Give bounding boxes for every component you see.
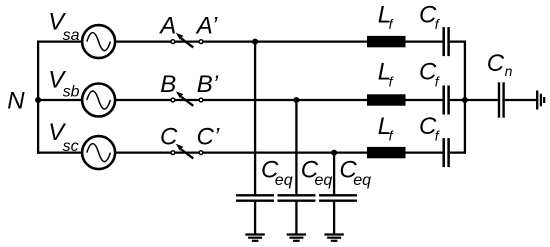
wire Vsb to switch B	[115, 99, 367, 101]
switch A blade with arrow	[176, 33, 194, 48]
junction dot row b tap	[293, 97, 299, 103]
switch B contact circles	[171, 98, 203, 102]
svg-text:A’: A’	[195, 12, 218, 39]
wire right bus to Cn	[465, 99, 498, 101]
source Vsb circle	[82, 84, 115, 117]
ground Ceq3	[324, 235, 343, 241]
right bus wire	[464, 41, 466, 154]
wire Ceq3 to ground	[333, 201, 335, 235]
junction dot row a tap	[252, 39, 258, 45]
wire N bus to Vsb	[37, 99, 82, 101]
switch B blade with arrow	[176, 91, 194, 106]
source Vsa sine	[87, 33, 111, 51]
svg-text:B’: B’	[197, 71, 219, 98]
capacitor Cf row a plates	[444, 27, 449, 56]
wire Cn to earth ground	[505, 99, 537, 101]
wire Lf to Cf row a	[406, 40, 443, 42]
svg-text:sa: sa	[63, 27, 80, 44]
wire Cf row c to right bus	[450, 151, 466, 153]
source Vsc sine	[87, 144, 111, 162]
node N junction dot	[35, 97, 41, 103]
wire N bus to Vsc	[37, 151, 82, 153]
capacitor Ceq1 plates	[236, 195, 274, 200]
wire Lf to Cf row b	[406, 99, 443, 101]
ground Ceq2	[287, 235, 306, 241]
svg-text:sb: sb	[63, 83, 80, 100]
ground Ceq1	[245, 235, 264, 241]
capacitor Cf row c plates	[444, 138, 449, 167]
svg-text:B: B	[160, 71, 176, 98]
wire Cf row b to right bus	[450, 99, 466, 101]
svg-text:A: A	[158, 12, 176, 39]
svg-text:N: N	[7, 88, 25, 115]
svg-text:eq: eq	[353, 172, 371, 189]
inductor Lf row b	[367, 94, 406, 105]
inductor Lf row c	[367, 147, 406, 158]
wire Lf to Cf row c	[406, 151, 443, 153]
wire Ceq1 to ground	[254, 201, 256, 235]
capacitor Ceq2 plates	[278, 195, 316, 200]
junction dot row c tap	[331, 150, 337, 156]
svg-text:n: n	[505, 63, 513, 79]
left bus wire (node N vertical)	[37, 41, 39, 154]
wire Vsa to switch A	[115, 40, 367, 42]
svg-text:eq: eq	[315, 172, 333, 189]
capacitor Cn plates	[499, 82, 504, 117]
source Vsb sine	[87, 91, 111, 109]
switch C blade with arrow	[176, 144, 194, 159]
wire tap row b down to Ceq2	[295, 100, 297, 195]
svg-text:sc: sc	[63, 138, 79, 155]
earth ground right	[537, 91, 544, 110]
svg-text:C’: C’	[197, 123, 220, 150]
wire tap row c down to Ceq3	[333, 153, 335, 195]
source Vsc circle	[82, 136, 115, 169]
svg-text:C: C	[160, 123, 178, 150]
wire Vsc to switch C	[115, 151, 367, 153]
junction dot right bus row b	[462, 97, 468, 103]
wire Cf row a to right bus	[450, 40, 466, 42]
wire Ceq2 to ground	[295, 201, 297, 235]
svg-text:C: C	[487, 50, 505, 77]
wire tap row a down to Ceq1	[254, 42, 256, 195]
source Vsa circle	[82, 25, 115, 58]
switch C contact circles	[171, 151, 203, 155]
svg-text:eq: eq	[275, 172, 293, 189]
wire N bus to Vsa	[37, 40, 82, 42]
capacitor Cf row b plates	[444, 86, 449, 115]
inductor Lf row a	[367, 36, 406, 47]
capacitor Ceq3 plates	[319, 195, 357, 200]
switch A contact circles	[171, 40, 203, 44]
